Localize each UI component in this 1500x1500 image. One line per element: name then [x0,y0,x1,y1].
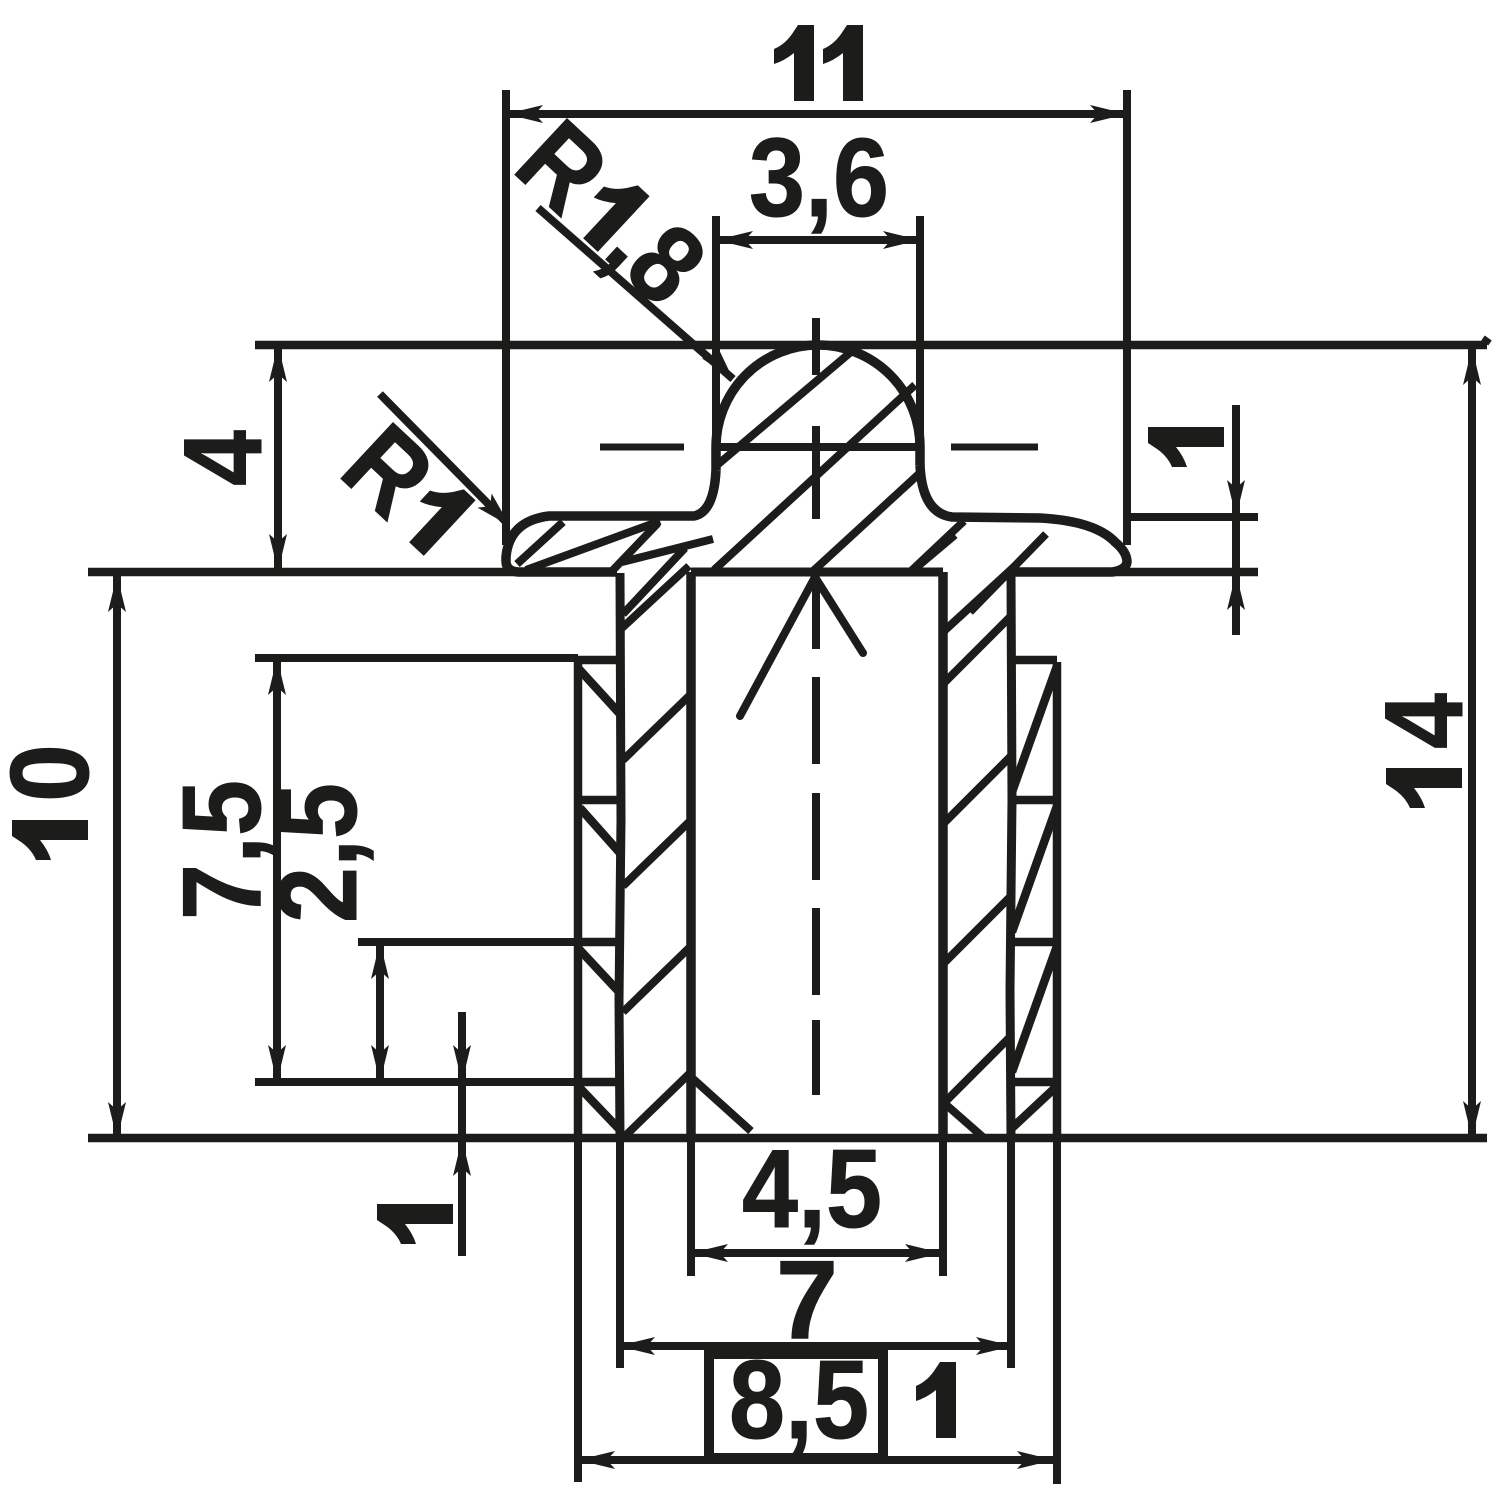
dim 3,6: line, extensions, arrows [716,236,920,244]
vertical centerline (dash-dot) [812,318,820,1095]
shank left root line [619,573,621,1138]
dim 10 (left, vertical): line + arrows [113,575,121,1139]
text 14 (rotated) [1362,693,1486,808]
dome arc R1,8 [716,345,920,470]
top reference line (tangent to dome top, ext for dims 4 & 14) [255,341,1487,350]
left fillet R + flange top surface + flange left edge rounding R1 [506,470,716,572]
dim 2,5 (vertical): line, extension, arrows [376,942,384,1082]
dim 11: line, extensions, arrows [506,110,1127,118]
part bottom edge + extension line (10/14 bottom) [88,1134,1487,1143]
svg-text:4: 4 [161,430,285,486]
dim 7 (bottom): line, extensions, arrows [618,1342,1013,1350]
flange bottom / surface line right (with ext for right dim 1) [1013,568,1258,577]
dim 4 (left, vertical): line + arrows [274,345,282,571]
text R1 (rotated 45) [320,401,492,574]
right fillet + flange top surface + flange right edge rounding [920,465,1127,572]
dim 7,5 (vertical): line, extensions, arrows [273,658,281,1082]
left barb tip envelope line (8,5 dia) [574,660,583,1138]
svg-text:0: 0 [0,744,112,802]
right barb shelves [1011,656,1057,665]
leader R1 [380,394,505,521]
thread point mark V in bore [740,577,815,716]
dim 1 (bottom left, vertical, outside arrows) [458,1012,466,1256]
bore right wall [938,572,948,1138]
text 1 (next to box) [916,1362,956,1438]
flange bottom / surface line left (with dim extension to 10/4) [88,568,617,577]
svg-text:4,5: 4,5 [742,1127,882,1251]
shank right root line [1010,573,1012,1138]
right barb flanks [1012,666,1057,792]
hatching: head (dome + flange) [716,346,858,466]
dim 8,5/1 (bottom): line, extensions, arrows [578,1456,1054,1464]
hatching: right shank wall [943,566,1015,632]
svg-text:2,5: 2,5 [256,783,380,923]
text R1,8 (rotated 45) [494,97,729,328]
dim 4,5 (bottom): line, extensions, arrows [691,1249,942,1257]
svg-text:4: 4 [1362,693,1486,749]
text 1 (right side, rotated) [1148,427,1224,467]
bore top edge [691,568,943,577]
text 11 [774,25,814,101]
bore left wall [686,572,696,1138]
dim 14 (right, vertical): line + arrows [1468,348,1476,1138]
text 1 (bottom left, rotated) [377,1204,453,1244]
hatching: left shank wall [622,566,689,628]
bore bottom lead-in chamfer right [943,1102,984,1138]
left barb flanks [578,668,620,714]
svg-text:3,6: 3,6 [749,116,889,240]
box around 8,5 [709,1354,883,1458]
dim 1 (right side, vertical, outside arrows) [1232,405,1240,635]
left barb shelves [578,656,620,665]
leader R1,8 [538,208,733,379]
svg-text:8,5: 8,5 [729,1338,869,1462]
text 10 (rotated) [0,744,112,860]
right barb tip envelope line [1053,662,1062,1138]
horizontal centerline through dome center [600,444,684,451]
bore bottom lead-in chamfer left [691,1077,751,1131]
